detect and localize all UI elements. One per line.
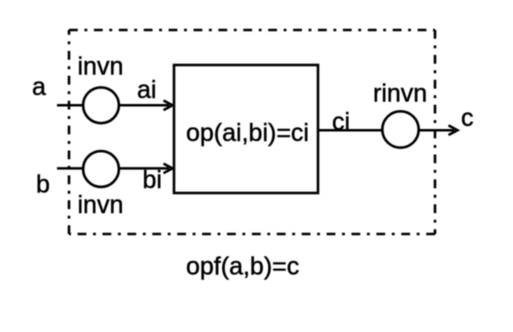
wire: inverter a output to op box (net ai) xyxy=(119,104,169,107)
inverter circle invn (input b) xyxy=(83,151,119,187)
svg-text:opf(a,b)=c: opf(a,b)=c xyxy=(186,253,299,281)
outer dashed-dotted boundary box (top edge) xyxy=(69,29,435,32)
outer dashed-dotted boundary box (bottom edge) xyxy=(69,233,435,236)
outer dashed-dotted boundary box (right edge) xyxy=(434,30,437,234)
arrowhead at output c xyxy=(449,125,458,135)
svg-text:invn: invn xyxy=(78,191,124,219)
wire: rinvn inverter output to c xyxy=(419,129,455,132)
svg-text:rinvn: rinvn xyxy=(373,80,427,108)
svg-text:invn: invn xyxy=(78,53,124,81)
inverter circle rinvn (output) xyxy=(382,111,418,147)
wire: input a to inverter xyxy=(57,104,83,107)
wire: op box output to rinvn inverter (net ci) xyxy=(318,129,383,132)
svg-text:a: a xyxy=(32,73,46,101)
wire: inverter b output to op box (net bi) xyxy=(119,167,169,170)
svg-text:ci: ci xyxy=(332,108,350,136)
svg-text:c: c xyxy=(461,104,474,132)
svg-text:b: b xyxy=(36,170,50,198)
inverter circle invn (input a) xyxy=(83,87,119,123)
svg-text:op(ai,bi)=ci: op(ai,bi)=ci xyxy=(186,119,309,147)
arrowhead into op box on net bi xyxy=(164,164,173,174)
arrowhead into op box on net ai xyxy=(164,101,173,111)
wire: input b to inverter xyxy=(57,167,83,170)
op block U1 xyxy=(174,65,318,193)
outer dashed-dotted boundary box (left edge) xyxy=(68,30,71,234)
svg-text:bi: bi xyxy=(143,166,162,194)
svg-text:ai: ai xyxy=(137,76,156,104)
